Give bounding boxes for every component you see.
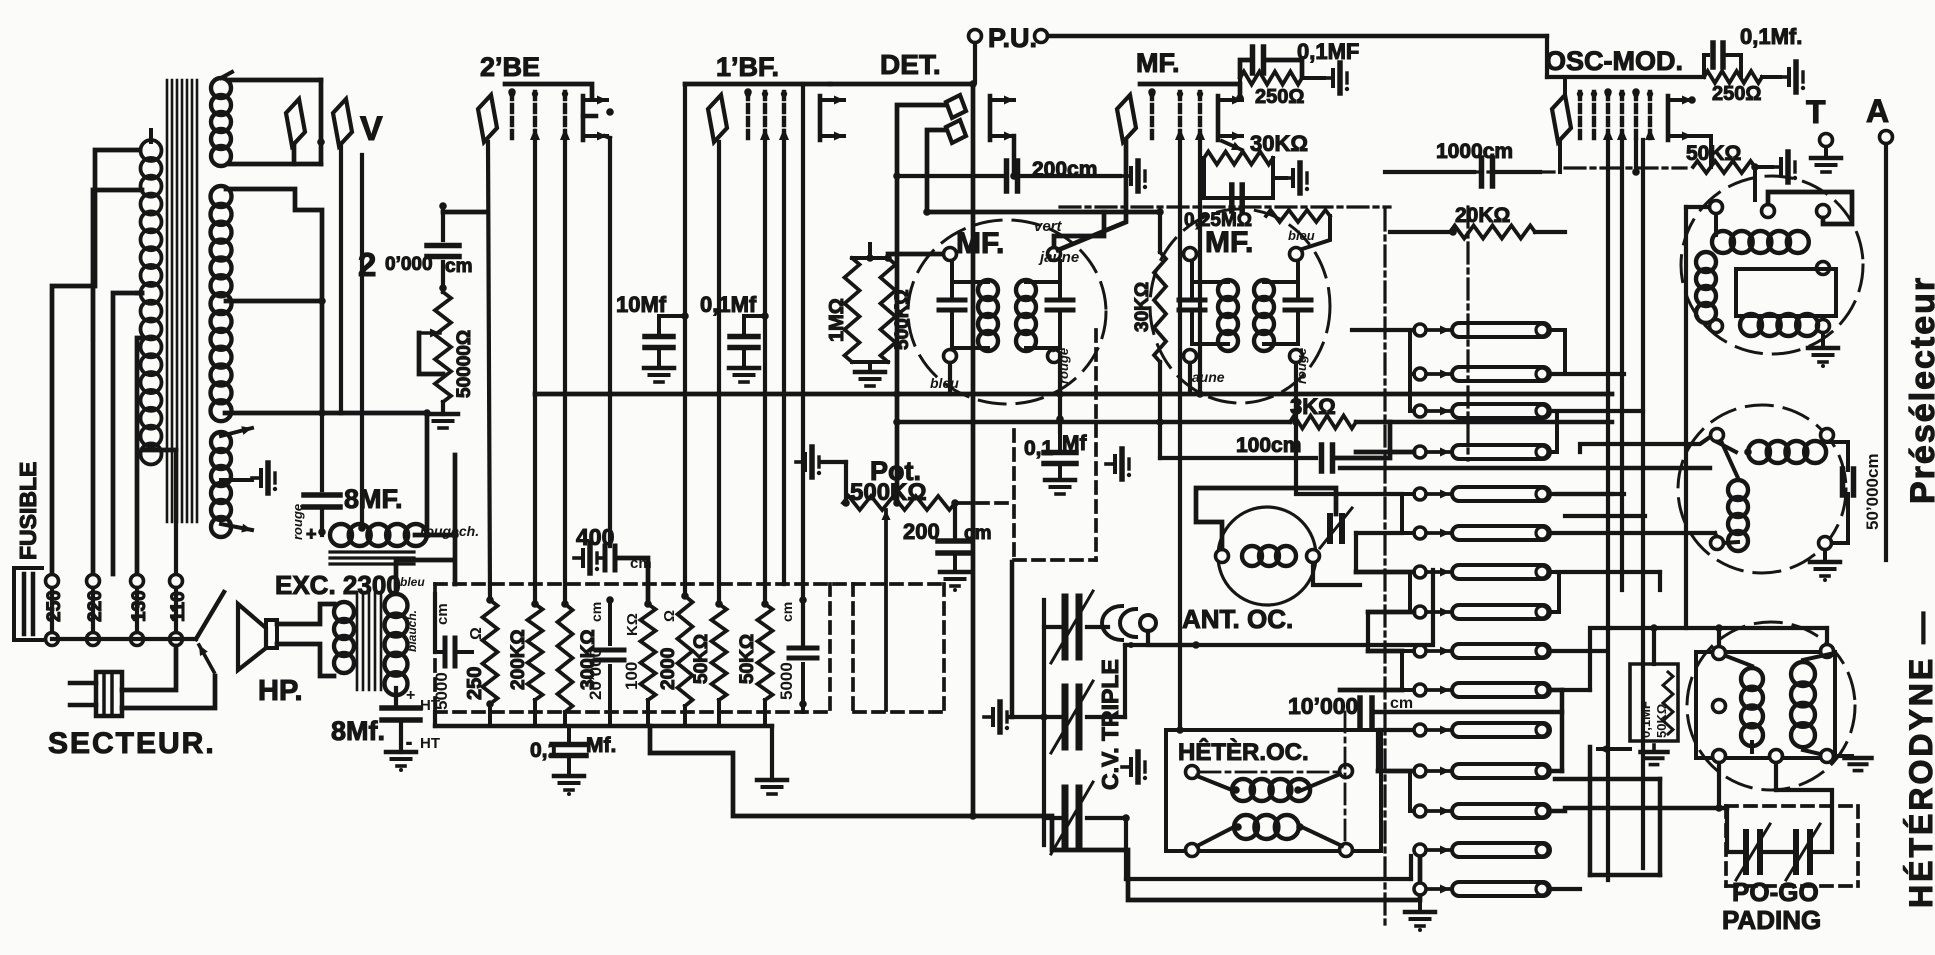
svg-text:-: -: [406, 732, 412, 752]
tube V anode plates: [286, 99, 352, 146]
label SECTEUR.: [48, 727, 216, 760]
svg-text:PO-GO: PO-GO: [1732, 877, 1819, 907]
svg-text:200: 200: [903, 519, 940, 544]
wire 2'BE plate: [605, 108, 614, 546]
svg-text:250Ω: 250Ω: [1255, 86, 1304, 108]
wire osc vert links: [1570, 330, 1612, 570]
label Preselecteur: [1904, 276, 1935, 504]
wire 2'BE grid2: [533, 140, 537, 604]
local osc coupling horn: [1102, 606, 1156, 648]
wire presel1 in: [1686, 167, 1755, 628]
ground 200cm: [940, 555, 970, 592]
MF transformer 1 shield: [908, 220, 1106, 404]
svg-text:250: 250: [44, 590, 65, 622]
dash-dot chassis C: [1390, 168, 1686, 460]
svg-text:0,1MF: 0,1MF: [1297, 39, 1359, 64]
transformer T1 heater winding: [211, 426, 252, 537]
label FUSIBLE: [15, 462, 41, 560]
svg-text:1MΩ: 1MΩ: [826, 298, 848, 342]
label ANT. OC.: [1182, 604, 1293, 634]
variable capacitor CV3: [1051, 782, 1093, 854]
wire IFT2 bl down: [1188, 363, 1192, 391]
presel1 top link: [1768, 192, 1852, 224]
svg-text:130: 130: [129, 590, 150, 622]
capacitor 400cm: [574, 524, 652, 607]
wire IFT2 br down: [1292, 363, 1300, 426]
wire PU drop: [973, 43, 977, 82]
wire OSC top: [1547, 77, 1704, 172]
wire bottom het: [1555, 745, 1660, 876]
IFT1 secondary cap: [1047, 261, 1073, 350]
het3 terminal f: [1713, 700, 1726, 713]
svg-text:0,1Mf.: 0,1Mf.: [1740, 24, 1802, 49]
resistor 30K AVC: [1132, 208, 1166, 362]
wire shield drop: [1010, 562, 1015, 717]
wire DET diode2: [927, 130, 946, 212]
HETER.OC terminal 3: [1186, 844, 1199, 857]
svg-text:+: +: [306, 524, 317, 544]
presel1 ground: [1808, 333, 1838, 368]
svg-text:cm: cm: [779, 602, 795, 622]
tube DET diode plates: [946, 95, 966, 143]
terminal 250: [44, 575, 65, 646]
svg-text:cm: cm: [434, 603, 451, 625]
presel1 coil top: [1712, 214, 1809, 253]
wire DET diode1: [897, 105, 946, 176]
heterodyne shield 3: [1687, 622, 1855, 790]
HETER.OC coil 2: [1197, 815, 1342, 846]
svg-text:MF.: MF.: [1205, 226, 1253, 259]
svg-text:2000: 2000: [658, 648, 679, 690]
svg-text:T: T: [1806, 94, 1826, 130]
svg-text:bleu: bleu: [400, 575, 425, 589]
wire long bus 468: [1340, 466, 1710, 470]
MF transformer 2 shield: [1150, 209, 1330, 403]
speaker HP cone: [238, 604, 277, 670]
wire mains tap 130: [113, 293, 142, 574]
svg-text:250Ω: 250Ω: [1712, 83, 1761, 105]
wire DET plate down: [1010, 136, 1018, 180]
wire 1'BF top: [685, 84, 830, 596]
HETER.OC coil 1: [1197, 774, 1340, 801]
wire MF top: [1140, 84, 1240, 97]
label MF. (tube): [1136, 48, 1180, 78]
tube 2'BE: [478, 91, 607, 142]
wire IFT1 br down: [1056, 356, 1064, 432]
label bleu (IFT1): [930, 375, 959, 391]
label EXC. 2300: [275, 570, 401, 600]
resistor 250 ohm: [464, 596, 498, 708]
svg-text:50000Ω: 50000Ω: [454, 330, 475, 398]
IFT2 secondary cap: [1285, 261, 1311, 344]
wire rect to 8MF: [320, 413, 324, 490]
resistor 250 (osc): [1704, 62, 1805, 105]
label PADING: [1722, 905, 1821, 935]
presel1 terminal b: [1762, 205, 1775, 218]
svg-text:blauch.: blauch.: [405, 610, 419, 652]
presel1 inner box: [1736, 269, 1836, 316]
wire het3 bottom: [1719, 763, 1776, 808]
label HP.: [258, 675, 303, 707]
label vert: [1034, 218, 1063, 235]
label HETERODYNE: [1903, 609, 1935, 908]
presel1 terminal e: [1710, 320, 1723, 333]
wire det grid bus: [893, 172, 901, 507]
svg-text:50KΩ: 50KΩ: [737, 634, 758, 684]
pot wiper arrow: [882, 510, 891, 710]
svg-text:ANT. OC.: ANT. OC.: [1182, 604, 1293, 634]
svg-text:Mf.: Mf.: [586, 734, 616, 757]
resistor 100K (bank): [622, 600, 656, 700]
ANT.OC coil: [1216, 546, 1320, 566]
HETER.OC terminal 4: [1340, 844, 1353, 857]
capacitor 200cm: [897, 158, 1147, 191]
wire 2'BE cathode: [488, 142, 490, 600]
resistor 3K: [1290, 394, 1612, 429]
het3 terminal b: [1821, 645, 1834, 658]
wire secondary bottom: [394, 688, 398, 706]
wire bus screen: [897, 420, 1290, 424]
het3 terminal c: [1713, 750, 1726, 763]
het3 coil right: [1791, 654, 1830, 754]
svg-text:A: A: [1866, 93, 1889, 129]
het3 coil left: [1726, 656, 1763, 752]
wire rows7-8 link: [1551, 572, 1559, 612]
terminal P.U. 1: [969, 30, 982, 43]
svg-text:PADING: PADING: [1722, 905, 1821, 935]
wire padders: [1551, 790, 1832, 852]
capacitor 100cm: [1156, 362, 1390, 471]
dash-dot chassis A: [1060, 205, 1390, 208]
svg-text:+: +: [406, 687, 415, 704]
resistor 250 ohm (MF): [1240, 63, 1349, 108]
label jaune: [1038, 249, 1079, 266]
svg-text:1000cm: 1000cm: [1436, 140, 1513, 163]
wire V to filter: [358, 155, 366, 532]
capacitor 1000cm: [1385, 120, 1540, 186]
capacitor 0,1MF (MF stage): [1240, 39, 1359, 77]
wire MF grid3: [1196, 140, 1204, 398]
wire P.U. line: [1048, 36, 1547, 77]
wire HP to coil: [277, 604, 334, 676]
resistor 50K (a): [691, 600, 727, 700]
wire 30K down: [1236, 212, 1238, 214]
svg-text:cm: cm: [1390, 695, 1413, 712]
svg-text:10Mf: 10Mf: [616, 292, 667, 317]
label HETER.OC.: [1178, 738, 1309, 766]
node b: [439, 202, 447, 240]
wire heter bottom bus: [1126, 821, 1411, 879]
IFT1 primary cap: [939, 261, 965, 348]
terminal 110: [168, 575, 189, 646]
het3 box: [1696, 652, 1835, 758]
svg-text:0,1: 0,1: [530, 739, 560, 762]
presel1 coil left: [1696, 252, 1716, 323]
label P.U.: [988, 23, 1037, 53]
label 2'BE: [480, 52, 540, 82]
svg-text:5000: 5000: [777, 662, 796, 700]
svg-text:HÉTÉRODYNE —: HÉTÉRODYNE —: [1903, 609, 1935, 908]
wire cap to bleeder: [439, 262, 447, 292]
padder capacitor 2: [1786, 824, 1820, 880]
output transformer primary coil: [334, 602, 354, 673]
ground 0,1Mf bank: [554, 757, 584, 796]
HT bus top: [433, 594, 437, 652]
capacitor 20'000cm: [358, 246, 472, 284]
presel1 terminal d: [1817, 262, 1830, 275]
resistor 30K anode: [1014, 131, 1309, 211]
ground-cap det: [1106, 449, 1131, 479]
presel1 coil bottom: [1740, 314, 1818, 336]
IFT1 primary coil: [952, 280, 998, 351]
terminal 220: [85, 575, 106, 646]
capacitor 200cm (pot): [903, 503, 991, 553]
presel2 coil top: [1717, 441, 1826, 463]
wire het3 top: [1610, 624, 1827, 646]
svg-text:0,1: 0,1: [1024, 437, 1054, 460]
svg-text:50KΩ: 50KΩ: [691, 634, 712, 684]
svg-text:20KΩ: 20KΩ: [1455, 204, 1510, 227]
wire CV2 stator: [1087, 641, 1200, 717]
wire secondary top: [396, 560, 452, 592]
presel2 terminal c: [1711, 537, 1724, 550]
terminal A: [1866, 93, 1893, 560]
wire 1'BF cathode: [717, 142, 721, 604]
presel2 coil left: [1722, 443, 1748, 551]
transformer T1 secondary HV mid: [211, 186, 232, 421]
HETER.OC terminal 1: [1186, 766, 1199, 779]
transformer T1 core: [167, 80, 197, 522]
label rouge (IFT1): [1056, 348, 1071, 384]
terminal 130: [129, 575, 150, 646]
label bleu: [400, 575, 425, 652]
svg-text:HÊTÈR.OC.: HÊTÈR.OC.: [1178, 738, 1309, 766]
het3 terminal a: [1713, 647, 1726, 660]
svg-text:1’BF.: 1’BF.: [716, 52, 779, 82]
svg-text:0,1Mf: 0,1Mf: [700, 292, 757, 317]
variable capacitor CV2: [1051, 681, 1093, 753]
wire IFT1 tr up: [1054, 212, 1104, 247]
wire mains tap 110: [142, 450, 176, 574]
capacitor 5000cm (bank): [432, 603, 472, 710]
svg-text:HP.: HP.: [258, 675, 303, 707]
svg-text:SECTEUR.: SECTEUR.: [48, 727, 216, 760]
wire ANT.OC right: [1313, 488, 1336, 556]
choke EXC 2300: [330, 523, 479, 564]
fuse holder: [14, 568, 42, 640]
heater center-tap bypass: [221, 463, 277, 493]
capacitor 5000cm (b): [777, 596, 817, 712]
svg-text:FUSIBLE: FUSIBLE: [15, 462, 41, 560]
HETER.OC dashline: [1200, 712, 1345, 845]
wire osc grid5: [1632, 140, 1640, 176]
svg-text:8Mf.: 8Mf.: [331, 716, 385, 746]
wire voltage bus: [52, 588, 196, 639]
terminal P.U. 2: [1035, 30, 1048, 43]
capacitor 0,1Mf (bank): [530, 726, 616, 762]
ground-cap HETER: [1122, 752, 1166, 782]
capacitor 8MF (1): [304, 484, 403, 514]
svg-text:cm: cm: [588, 602, 604, 622]
wire bank to CV ground bus: [650, 726, 1420, 900]
ANT.OC shield circle: [1218, 507, 1316, 605]
svg-text:500KΩ: 500KΩ: [850, 479, 927, 506]
svg-text:220: 220: [85, 590, 106, 622]
dashed shield 0,1Mf: [958, 330, 1096, 560]
wire DET plate bracket: [990, 96, 1014, 141]
svg-text:50KΩ: 50KΩ: [1654, 704, 1669, 738]
mains plug SECTEUR: [70, 672, 122, 716]
svg-text:100: 100: [622, 662, 641, 690]
svg-text:0’000: 0’000: [385, 254, 433, 275]
svg-text:10’000: 10’000: [1288, 693, 1358, 719]
svg-text:Présélecteur: Présélecteur: [1904, 276, 1935, 504]
svg-text:HT: HT: [420, 735, 440, 752]
wire mains tap 220: [93, 190, 142, 574]
wafer switch contacts: [1414, 323, 1550, 896]
PO-GO dashed box: [1726, 806, 1858, 886]
resistor 0,25M: [1266, 210, 1330, 250]
output transformer core: [357, 592, 381, 690]
ground 8Mf: [386, 721, 416, 772]
wire pill risers: [1551, 330, 1565, 452]
svg-text:2’BE: 2’BE: [480, 52, 540, 82]
label OSC-MOD.: [1545, 46, 1683, 76]
wire plug to switch: [122, 646, 215, 708]
capacitor 10Mf: [616, 292, 689, 382]
IFT1 terminal tl: [944, 248, 957, 261]
preselector shield 1: [1681, 176, 1863, 354]
wire pot wiper feed: [0, 0, 1, 1]
svg-text:2: 2: [358, 246, 376, 283]
svg-text:MF.: MF.: [956, 227, 1004, 260]
svg-text:200KΩ: 200KΩ: [508, 629, 529, 690]
switch selector blade: [196, 592, 224, 672]
wire bus AVC: [535, 392, 1612, 397]
wire 516 link: [1565, 514, 1645, 518]
label MF. (IFT1): [956, 227, 1004, 260]
HETER.OC terminal 2: [1340, 765, 1353, 778]
wire osc plate: [1668, 77, 1696, 104]
wire vert line: [923, 208, 1160, 216]
presel2 ground: [1810, 550, 1840, 582]
svg-text:20’000: 20’000: [586, 648, 605, 700]
resistor 50000 ohm bleeder: [435, 292, 475, 402]
IFT2 terminal bl: [1184, 350, 1197, 363]
bus bank bottom: [435, 700, 772, 726]
ANT.OC trimmer: [1320, 508, 1352, 556]
label C.V. TRIPLE: [1097, 659, 1123, 790]
wire ANT.OC bottom: [1196, 560, 1433, 645]
svg-text:DET.: DET.: [880, 49, 941, 80]
wire to presel2 a: [1580, 437, 1710, 452]
wire choke output: [415, 455, 459, 584]
svg-text:250: 250: [464, 667, 486, 700]
capacitor 0,1Mf (det): [1024, 432, 1087, 494]
presel1 terminal a: [1710, 201, 1723, 214]
ground bleeder: [428, 402, 458, 428]
het3 ground: [1835, 756, 1872, 771]
pot 500K: [842, 456, 959, 510]
svg-text:cm: cm: [964, 523, 991, 544]
IFT1 secondary coil: [1016, 280, 1060, 351]
tube OSC-MOD: [1552, 91, 1692, 142]
label MF. (IFT2): [1205, 226, 1253, 259]
svg-text:cm: cm: [445, 256, 472, 277]
svg-text:bleu: bleu: [930, 375, 959, 391]
wire CV3 out: [1087, 814, 1130, 822]
tube MF: [1117, 91, 1242, 142]
bleeder tap arrow: [419, 329, 443, 375]
IFT2 secondary coil: [1254, 280, 1298, 351]
terminal T: [1806, 94, 1841, 172]
resistor 50K (b): [737, 600, 773, 700]
svg-text:bleu: bleu: [1288, 228, 1315, 243]
IFT1 terminal bl: [944, 350, 957, 363]
dash-dot chassis B: [1383, 210, 1386, 930]
svg-text:100cm: 100cm: [1236, 434, 1301, 457]
label 0,25M: [1184, 210, 1252, 231]
label V: [360, 110, 383, 148]
wire HV top to V: [228, 80, 325, 164]
wire MF plate: [1236, 78, 1244, 102]
het3 terminal e: [1821, 750, 1834, 763]
wire 8MF to choke: [306, 507, 326, 544]
CV rotor bus: [1040, 600, 1065, 845]
svg-text:Ω: Ω: [468, 627, 485, 640]
presel2 terminal d: [1819, 537, 1832, 550]
wire bleeder top right: [443, 210, 487, 215]
wire 50000cm label line: [1885, 543, 1887, 560]
svg-text:P.U.: P.U.: [988, 23, 1037, 53]
HETER.OC box: [1166, 730, 1411, 851]
svg-text:0,1MF: 0,1MF: [1638, 701, 1653, 738]
svg-text:5000: 5000: [432, 672, 451, 710]
capacitor 0,1Mf (BF): [700, 292, 769, 382]
output transformer secondary coil: [385, 594, 408, 695]
wire 2'BE top: [505, 84, 592, 97]
svg-text:3KΩ: 3KΩ: [1290, 394, 1336, 419]
wire HV center tap: [226, 189, 326, 417]
ground 1M/500K: [852, 362, 888, 386]
IFT2 primary cap: [1179, 261, 1205, 344]
ground-cap CV: [984, 702, 1044, 732]
IFT2 terminal tr: [1290, 248, 1303, 261]
wire V cathode down: [341, 409, 431, 539]
wire V plate 2 lead: [225, 146, 341, 413]
variable capacitor CV1: [1051, 591, 1093, 663]
switch left links: [1402, 330, 1414, 811]
svg-text:110: 110: [168, 591, 189, 622]
wire DET top: [830, 82, 973, 87]
wire ANT.OC top loop: [1196, 488, 1336, 549]
wire osc grids down: [1608, 140, 1650, 880]
IFT2 terminal tl: [1184, 248, 1197, 261]
switch feeds: [1296, 330, 1414, 771]
resistor 500K: [881, 258, 914, 362]
svg-text:Ω: Ω: [661, 610, 678, 622]
wire right links: [1551, 374, 1717, 889]
label 1'BF.: [716, 52, 779, 82]
IFT2 primary coil: [1192, 280, 1238, 351]
wire A drop to presel2: [1862, 543, 1886, 560]
resistor 1M: [826, 258, 860, 362]
presel1 terminal c: [1817, 205, 1830, 218]
IFT1 terminal tr: [1048, 248, 1061, 261]
svg-text:30KΩ: 30KΩ: [1250, 131, 1308, 156]
ground-cap pot left: [796, 447, 846, 500]
wire 2'BE grid3: [563, 140, 567, 604]
